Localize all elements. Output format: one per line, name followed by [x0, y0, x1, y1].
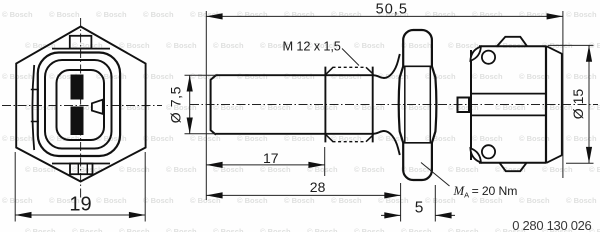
- svg-text:© Bosch: © Bosch: [190, 10, 221, 19]
- thread start face: [324, 67, 326, 143]
- thread label leader: [342, 49, 359, 66]
- tip end cap with chamfers: [211, 75, 216, 135]
- dimension 28 line: [206, 194, 400, 196]
- shank bottom edge: [216, 133, 375, 135]
- collar corner lens top: [470, 47, 481, 61]
- connector shroud bottom rail: [52, 163, 110, 165]
- svg-text:Ø 15: Ø 15: [570, 89, 586, 120]
- pin blade upper: [71, 75, 84, 100]
- shroud middle wall: [45, 60, 112, 149]
- dimension 5 right extension: [434, 185, 436, 222]
- dimension 17 right extension: [324, 147, 326, 176]
- common left extension line: [205, 11, 207, 200]
- seal hole lower: [482, 145, 495, 158]
- svg-text:© Bosch: © Bosch: [448, 41, 479, 50]
- svg-text:© Bosch: © Bosch: [119, 41, 150, 50]
- svg-text:© Bosch: © Bosch: [519, 10, 550, 19]
- svg-text:5: 5: [415, 200, 424, 217]
- housing top latch tab: [497, 37, 527, 46]
- neck flare top: [373, 54, 400, 78]
- torque leader: [421, 163, 450, 187]
- top key tab: [70, 36, 92, 49]
- svg-text:© Bosch: © Bosch: [472, 10, 503, 19]
- svg-text:© Bosch: © Bosch: [354, 41, 385, 50]
- centerline horizontal (side view): [190, 104, 598, 106]
- shroud outer wall: [38, 53, 120, 157]
- polarization key notch: [92, 100, 103, 114]
- svg-text:0 280 130 026: 0 280 130 026: [512, 218, 591, 232]
- svg-text:© Bosch: © Bosch: [49, 10, 80, 19]
- housing top edge: [479, 45, 547, 47]
- dimension dia 15 extensions: [548, 44, 594, 46]
- connector shroud top rail: [52, 48, 110, 50]
- chamfer arc on left flat: [32, 65, 34, 150]
- svg-text:© Bosch: © Bosch: [96, 10, 127, 19]
- bottom latch tab: [70, 164, 93, 175]
- svg-text:MA= 20 Nm: MA= 20 Nm: [453, 184, 518, 200]
- dimension 28 right extension: [400, 183, 402, 222]
- thread crest dashed top: [333, 66, 367, 68]
- svg-text:M 12 x 1,5: M 12 x 1,5: [283, 38, 341, 53]
- svg-text:© Bosch: © Bosch: [2, 10, 33, 19]
- centerline horizontal (front view): [2, 105, 162, 107]
- horizontal ledge lines left: [31, 89, 39, 91]
- hex body outline (front view): [16, 27, 145, 182]
- svg-text:© Bosch: © Bosch: [566, 10, 597, 19]
- end cap right face: [561, 53, 563, 155]
- svg-text:28: 28: [310, 179, 326, 195]
- housing bottom latch tab: [500, 163, 527, 171]
- dimension dia 15 line: [588, 45, 590, 163]
- svg-text:19: 19: [69, 194, 91, 216]
- svg-text:© Bosch: © Bosch: [425, 10, 456, 19]
- dimension 5 left arrow: [381, 214, 401, 216]
- housing bottom edge: [479, 162, 547, 164]
- svg-text:© Bosch: © Bosch: [284, 10, 315, 19]
- svg-text:© Bosch: © Bosch: [401, 41, 432, 50]
- centerline vertical (front view): [80, 18, 82, 198]
- svg-text:17: 17: [263, 150, 279, 166]
- dimension 50,5 line: [206, 15, 563, 17]
- housing parting line lower: [471, 114, 546, 116]
- end cap chamfer bottom: [547, 155, 562, 163]
- housing right joint edge: [545, 46, 547, 163]
- connector collar face: [470, 50, 472, 160]
- svg-text:© Bosch: © Bosch: [331, 10, 362, 19]
- dimension dia 7,5 extensions: [185, 74, 217, 76]
- terminal lug square: [458, 98, 470, 113]
- dimension 50,5 right extension: [562, 11, 564, 178]
- thread chamfer corners: [326, 67, 333, 74]
- svg-text:© Bosch: © Bosch: [166, 41, 197, 50]
- svg-text:Ø 7,5: Ø 7,5: [167, 86, 183, 123]
- pin blade lower: [71, 107, 84, 136]
- dimension 5 right arrow: [435, 214, 455, 216]
- thread end face: [372, 67, 374, 143]
- dimension dia 7,5 line: [189, 75, 191, 134]
- thread crest dashed bottom: [333, 141, 367, 143]
- dimension 17 line: [206, 164, 324, 166]
- dimension 19 extension lines: [14, 152, 16, 222]
- hex nut silhouette (side view): [399, 30, 437, 180]
- hex facet line right: [429, 66, 431, 143]
- seal hole upper: [482, 51, 495, 64]
- neck flare bottom: [373, 131, 400, 155]
- svg-text:© Bosch: © Bosch: [143, 10, 174, 19]
- dimension 19 line with arrows: [15, 214, 145, 216]
- shank top edge: [216, 74, 375, 76]
- hex facet line left: [404, 66, 406, 143]
- hex chamfer line top: [403, 65, 432, 67]
- shroud inner wall: [57, 70, 105, 140]
- housing parting line upper: [471, 93, 546, 95]
- end cap chamfer top: [547, 46, 562, 54]
- hex chamfer line bottom: [403, 142, 432, 144]
- svg-text:© Bosch: © Bosch: [213, 41, 244, 50]
- svg-text:50,5: 50,5: [376, 1, 408, 17]
- svg-text:© Bosch: © Bosch: [237, 10, 268, 19]
- collar corner lens bottom: [470, 148, 481, 162]
